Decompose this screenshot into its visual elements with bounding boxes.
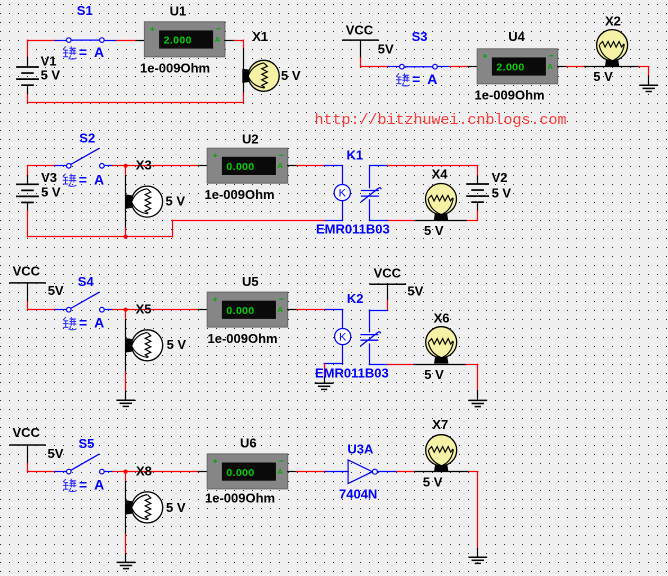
value label V3 5 V bbox=[41, 184, 61, 199]
label X7 bbox=[432, 417, 448, 432]
svg-text:K: K bbox=[339, 188, 347, 200]
value label U6 1e-009Ohm bbox=[205, 490, 275, 505]
wire U2 right pin bbox=[288, 165, 297, 167]
wire V3+ vertical bbox=[27, 166, 29, 176]
svg-text:EMR011B03: EMR011B03 bbox=[315, 366, 389, 381]
value label X1 5 V bbox=[281, 68, 301, 83]
svg-text:A: A bbox=[548, 62, 554, 71]
wire X3 top pin red bbox=[125, 166, 127, 176]
label S4 bbox=[78, 274, 95, 289]
ground K2 coil bbox=[315, 383, 334, 389]
wire contact bottom blue bbox=[370, 220, 388, 222]
wire X6 pins bbox=[414, 364, 466, 366]
wire X7 gnd stub bbox=[477, 549, 479, 558]
wire V2 bottom stub bbox=[477, 202, 479, 211]
label U2 bbox=[242, 132, 259, 147]
wire U4 right pin bbox=[558, 66, 567, 68]
wire X6 gnd drop bbox=[477, 364, 479, 390]
wire K2 coil top stub bbox=[342, 310, 344, 329]
wire VCC to contact bbox=[369, 310, 387, 312]
svg-text:U4: U4 bbox=[508, 29, 525, 44]
ground row1 bbox=[639, 85, 658, 91]
wire U2 left pin bbox=[198, 165, 207, 167]
svg-text:= A: = A bbox=[79, 44, 106, 60]
wire VCC stem row3 bbox=[27, 283, 29, 302]
svg-text:X4: X4 bbox=[432, 167, 449, 182]
wire U5 to K2 bbox=[297, 309, 326, 311]
key label 键 = A bbox=[63, 174, 77, 187]
label K1 bbox=[347, 148, 364, 163]
wire X8 gnd stub bbox=[125, 554, 127, 562]
wire K2 coil bottom corner bbox=[324, 363, 343, 365]
label X8 bbox=[136, 464, 152, 479]
value label 7404N bbox=[339, 487, 377, 502]
wire U3A input bbox=[325, 471, 348, 473]
power VCC row4 label VCC bbox=[13, 425, 41, 440]
lamp X1 bbox=[242, 60, 279, 91]
wire junction to U2 bbox=[126, 165, 199, 167]
lamp X7 bbox=[426, 435, 457, 472]
svg-text:5 V: 5 V bbox=[281, 68, 301, 83]
label X4 bbox=[432, 167, 449, 182]
lamp X6 bbox=[426, 327, 457, 364]
wire X1 top pin bbox=[243, 49, 245, 70]
svg-text:0.000: 0.000 bbox=[226, 161, 254, 173]
power VCC row3 left bbox=[9, 282, 46, 284]
wire X1 to bottom corner bbox=[243, 93, 245, 102]
wire K2 coil gnd red bbox=[324, 364, 326, 378]
svg-text:5 V: 5 V bbox=[167, 337, 187, 352]
wire X2 pins bbox=[585, 66, 639, 68]
svg-text:0.000: 0.000 bbox=[226, 467, 254, 479]
svg-text:0.000: 0.000 bbox=[226, 305, 254, 317]
wire U1 right pin bbox=[225, 40, 234, 42]
wire K1 contact bottom stub bbox=[369, 200, 371, 220]
wire X8 pins bbox=[125, 482, 127, 535]
wire X5 top pin red bbox=[125, 310, 127, 320]
wire V1+ vertical bbox=[27, 40, 29, 57]
svg-text:1e-009Ohm: 1e-009Ohm bbox=[140, 60, 210, 75]
power VCC row3 right bbox=[369, 283, 406, 285]
wire S5 right stub bbox=[104, 471, 113, 473]
svg-text:1e-009Ohm: 1e-009Ohm bbox=[205, 490, 275, 505]
label X3 bbox=[136, 158, 152, 173]
label S2 bbox=[79, 131, 95, 146]
wire K2 coil bottom stub bbox=[342, 345, 344, 364]
wire U3A output bbox=[377, 471, 396, 473]
power VCC row1 value 5V bbox=[378, 41, 394, 56]
wire X8 top pin red bbox=[125, 472, 127, 482]
power VCC row4 value 5V bbox=[48, 446, 64, 461]
wire X1 top corner bbox=[243, 40, 245, 49]
svg-text:X6: X6 bbox=[434, 311, 450, 326]
key label 键 = A bbox=[63, 479, 77, 492]
wire U2 to K1 bbox=[297, 165, 325, 167]
svg-text:V1: V1 bbox=[41, 53, 57, 68]
wire VCC stem red bbox=[360, 58, 362, 67]
svg-text:= A: = A bbox=[79, 315, 106, 331]
wire X1 bottom pin bbox=[243, 82, 245, 94]
value label U5 1e-009Ohm bbox=[208, 331, 278, 346]
wire V1 top stub bbox=[27, 57, 29, 67]
value label U1 1e-009Ohm bbox=[140, 60, 210, 75]
power VCC row1 bbox=[342, 39, 379, 41]
wire K2 contact top stub bbox=[369, 310, 371, 332]
value label U2 1e-009Ohm bbox=[205, 187, 275, 202]
svg-text:X3: X3 bbox=[136, 158, 152, 173]
wire contact to V2 top bbox=[388, 165, 478, 167]
wire K2 coil gnd stub bbox=[324, 378, 326, 383]
label S5 bbox=[79, 436, 95, 451]
switch S2 bbox=[67, 148, 105, 168]
wire K2 contact bottom stub bbox=[369, 344, 371, 364]
wire X7 to gnd corner bbox=[469, 471, 478, 473]
svg-text:X5: X5 bbox=[136, 302, 152, 317]
svg-text:U2: U2 bbox=[242, 132, 259, 147]
svg-text:5V: 5V bbox=[48, 283, 64, 298]
label V3 bbox=[41, 170, 57, 185]
label X5 bbox=[136, 302, 152, 317]
value label X6 5 V bbox=[424, 367, 444, 382]
switch S5 bbox=[67, 454, 105, 474]
ammeter U6 bbox=[207, 454, 288, 489]
svg-text:1e-009Ohm: 1e-009Ohm bbox=[208, 331, 278, 346]
watermark url text bbox=[315, 112, 567, 129]
label X1 bbox=[252, 29, 268, 44]
switch S3 bbox=[400, 64, 438, 69]
power VCC row3 left label VCC bbox=[13, 263, 41, 278]
wire K1 coil top corner bbox=[324, 165, 342, 167]
svg-text:V2: V2 bbox=[492, 170, 508, 185]
svg-text:VCC: VCC bbox=[346, 23, 374, 38]
battery V3 bbox=[16, 184, 39, 202]
wire VCC stem red row4 bbox=[27, 464, 29, 472]
svg-text:5 V: 5 V bbox=[41, 68, 61, 83]
wire bottom return to V3 bbox=[28, 236, 173, 238]
wire bottom return to V1 bbox=[28, 102, 244, 104]
wire S2 to junction bbox=[113, 165, 126, 167]
wire S2 left stub bbox=[55, 165, 66, 167]
svg-text:A: A bbox=[278, 467, 284, 476]
value label X8 5 V bbox=[166, 500, 186, 515]
wire V2 top corner bbox=[477, 166, 479, 176]
switch S4 bbox=[67, 292, 105, 312]
power VCC row3 right label VCC bbox=[374, 266, 402, 281]
wire X3 bottom red bbox=[125, 228, 127, 237]
wire S3 right stub bbox=[437, 66, 450, 68]
svg-text:U1: U1 bbox=[170, 4, 187, 19]
value label X5 5 V bbox=[167, 337, 187, 352]
wire ground drop red bbox=[648, 67, 650, 76]
label U6 bbox=[240, 435, 257, 450]
svg-text:V3: V3 bbox=[41, 170, 57, 185]
svg-text:K1: K1 bbox=[347, 148, 364, 163]
ground X7 bbox=[468, 557, 487, 563]
value label V1 5 V bbox=[41, 68, 61, 83]
wire U1 to X1 bbox=[234, 40, 243, 42]
relay coil K2 bbox=[335, 329, 351, 345]
svg-text:1e-009Ohm: 1e-009Ohm bbox=[475, 88, 545, 103]
wire S3 left stub bbox=[388, 66, 400, 68]
relay contact K1 bbox=[361, 188, 381, 202]
svg-text:2.000: 2.000 bbox=[164, 35, 192, 47]
wire K1 coil top stub bbox=[342, 166, 344, 185]
wire contact bottom blue row3 bbox=[369, 364, 387, 366]
wire K1 coil bottom stub bbox=[342, 201, 344, 221]
svg-text:VCC: VCC bbox=[13, 263, 41, 278]
wire X8 bottom red bbox=[125, 534, 127, 554]
label K2 bbox=[347, 291, 364, 306]
wire junction to U5 bbox=[126, 309, 199, 311]
svg-text:5V: 5V bbox=[407, 284, 423, 299]
value label X7 5 V bbox=[423, 475, 443, 490]
svg-text:5 V: 5 V bbox=[166, 500, 186, 515]
switch S1 bbox=[67, 38, 105, 43]
wire S3 to U4 bbox=[450, 66, 468, 68]
label EMR011B03 bbox=[316, 222, 390, 237]
ammeter U2 bbox=[207, 148, 288, 183]
svg-text:A: A bbox=[215, 35, 221, 44]
wire V3+ to S2 bbox=[28, 165, 56, 167]
battery V1 bbox=[16, 67, 39, 85]
wire S1 to U1 bbox=[117, 40, 136, 42]
wire S4 right stub bbox=[104, 309, 113, 311]
ammeter U5 bbox=[207, 292, 288, 327]
wire VCC stem red row3 bbox=[27, 302, 29, 310]
relay coil K1 bbox=[334, 185, 350, 201]
label S1 bbox=[77, 3, 93, 18]
svg-text:X7: X7 bbox=[432, 417, 448, 432]
wire V3 bottom stub bbox=[27, 202, 29, 211]
wire ground stub bbox=[648, 76, 650, 85]
svg-text:= A: = A bbox=[412, 71, 439, 87]
wire U5 left pin bbox=[198, 309, 207, 311]
label V2 bbox=[492, 170, 508, 185]
wire V1+ to S1 (top left corner) bbox=[28, 40, 56, 42]
label EMR011B03 row3 bbox=[315, 366, 389, 381]
power VCC row4 bbox=[9, 444, 46, 446]
svg-text:K2: K2 bbox=[347, 291, 364, 306]
wire V1- vertical bbox=[27, 94, 29, 103]
ground X5 bbox=[116, 400, 135, 406]
svg-text:X8: X8 bbox=[136, 464, 152, 479]
wire contact top blue bbox=[370, 165, 388, 167]
value label U4 1e-009Ohm bbox=[475, 88, 545, 103]
wire V2 to X4 bbox=[466, 220, 478, 222]
wire U5 right pin bbox=[288, 309, 297, 311]
wire X7 gnd drop bbox=[477, 472, 479, 549]
ammeter U4 bbox=[477, 49, 558, 84]
junction node X3 bottom bbox=[124, 235, 128, 239]
wire K1 coil bottom corner bbox=[324, 220, 342, 222]
value label V2 5 V bbox=[492, 185, 512, 200]
value label X2 5 V bbox=[593, 69, 613, 84]
wire X5 gnd stub bbox=[125, 391, 127, 400]
power VCC row3 right value 5V bbox=[407, 284, 423, 299]
wire VCC to S5 bbox=[28, 471, 56, 473]
wire VCC stem row4 bbox=[27, 445, 29, 464]
wire V3 top stub bbox=[27, 176, 29, 185]
wire V1 bottom stub bbox=[27, 85, 29, 93]
svg-text:S2: S2 bbox=[79, 131, 95, 146]
svg-text:U6: U6 bbox=[240, 435, 257, 450]
key label 键 = A bbox=[63, 317, 77, 330]
key label 键 = A bbox=[396, 73, 410, 86]
wire VCC stem red row3R bbox=[387, 300, 389, 310]
label U4 bbox=[508, 29, 525, 44]
wire U6 right pin bbox=[288, 471, 297, 473]
value label X3 5 V bbox=[166, 194, 186, 209]
svg-text:5 V: 5 V bbox=[166, 194, 186, 209]
wire K2 coil top corner bbox=[325, 309, 343, 311]
svg-text:A: A bbox=[278, 305, 284, 314]
wire U6 left pin bbox=[198, 471, 207, 473]
wire S1 right stub bbox=[104, 40, 116, 42]
ammeter U1 bbox=[144, 22, 225, 57]
wire U4 to X2 bbox=[567, 66, 585, 68]
label S3 bbox=[412, 29, 428, 44]
lamp X2 bbox=[597, 30, 628, 67]
svg-text:5 V: 5 V bbox=[424, 367, 444, 382]
wire U4 left pin bbox=[468, 66, 477, 68]
wire S2 right stub bbox=[104, 165, 113, 167]
svg-text:U5: U5 bbox=[242, 274, 259, 289]
inverter U3A bbox=[348, 460, 377, 484]
power VCC row1 label VCC bbox=[346, 23, 374, 38]
wire U3A to X7 bbox=[397, 471, 415, 473]
svg-text:U3A: U3A bbox=[347, 442, 374, 457]
svg-text:K: K bbox=[339, 332, 347, 344]
relay contact K2 bbox=[360, 332, 380, 346]
svg-text:VCC: VCC bbox=[13, 425, 41, 440]
lamp X3 bbox=[126, 186, 163, 217]
svg-text:VCC: VCC bbox=[374, 266, 402, 281]
junction node X5 top bbox=[124, 308, 128, 312]
wire V3- vertical bbox=[27, 211, 29, 237]
svg-text:S3: S3 bbox=[412, 29, 428, 44]
svg-text:5 V: 5 V bbox=[424, 223, 444, 238]
battery V2 bbox=[466, 184, 489, 202]
wire VCC to S4 bbox=[28, 309, 56, 311]
svg-text:5 V: 5 V bbox=[41, 184, 61, 199]
lamp X4 bbox=[426, 184, 457, 221]
svg-text:X1: X1 bbox=[252, 29, 268, 44]
ground X6 bbox=[468, 400, 487, 406]
ground X8 bbox=[117, 562, 136, 568]
svg-text:S5: S5 bbox=[79, 436, 95, 451]
wire U6 to U3A bbox=[297, 471, 326, 473]
svg-text:S4: S4 bbox=[78, 274, 95, 289]
wire X6 gnd stub bbox=[477, 391, 479, 401]
wire X4 to contact bbox=[388, 220, 415, 222]
key label 键 = A bbox=[63, 46, 77, 59]
wire X7 pins bbox=[415, 471, 469, 473]
wire V2 bottom corner bbox=[477, 211, 479, 220]
svg-text:http://bitzhuwei.cnblogs.com: http://bitzhuwei.cnblogs.com bbox=[315, 112, 567, 129]
junction node X3 top bbox=[124, 164, 128, 168]
label U5 bbox=[242, 274, 259, 289]
wire S1 left stub bbox=[55, 40, 66, 42]
wire return step down bbox=[172, 220, 174, 236]
wire U1 left pin bbox=[136, 40, 144, 42]
wire V2 top stub bbox=[477, 176, 479, 184]
wire X6 to gnd corner bbox=[466, 364, 478, 366]
junction node X8 top bbox=[124, 470, 128, 474]
wire K1 contact top stub bbox=[369, 166, 371, 188]
label X2 bbox=[605, 13, 621, 28]
wire VCC stem bbox=[360, 40, 362, 58]
wire junction to U6 bbox=[126, 471, 199, 473]
svg-text:1e-009Ohm: 1e-009Ohm bbox=[205, 187, 275, 202]
wire X5 pins bbox=[125, 320, 127, 373]
power VCC row3 left value 5V bbox=[48, 283, 64, 298]
wire S4 left stub bbox=[55, 309, 66, 311]
label V1 bbox=[41, 53, 57, 68]
label U3A bbox=[347, 442, 374, 457]
wire X5 bottom red bbox=[125, 372, 127, 391]
svg-text:2.000: 2.000 bbox=[496, 62, 524, 74]
svg-text:5V: 5V bbox=[378, 41, 394, 56]
svg-text:A: A bbox=[278, 161, 284, 170]
wire S5 to junction bbox=[113, 471, 126, 473]
label X6 bbox=[434, 311, 450, 326]
svg-text:X2: X2 bbox=[605, 13, 621, 28]
wire coil return bbox=[173, 220, 325, 222]
svg-text:= A: = A bbox=[79, 171, 106, 187]
wire S4 to junction bbox=[113, 309, 126, 311]
svg-text:7404N: 7404N bbox=[339, 487, 377, 502]
wire X2 to ground corner bbox=[639, 66, 649, 68]
lamp X8 bbox=[126, 492, 163, 523]
value label X4 5 V bbox=[424, 223, 444, 238]
wire VCC stem row3R bbox=[387, 284, 389, 300]
svg-text:S1: S1 bbox=[77, 3, 93, 18]
wire X3 pins bbox=[125, 176, 127, 228]
label U1 bbox=[170, 4, 187, 19]
svg-text:5 V: 5 V bbox=[492, 185, 512, 200]
svg-text:EMR011B03: EMR011B03 bbox=[316, 222, 390, 237]
wire X4 pins bbox=[414, 220, 466, 222]
svg-text:5V: 5V bbox=[48, 446, 64, 461]
svg-text:5 V: 5 V bbox=[423, 475, 443, 490]
lamp X5 bbox=[126, 330, 163, 361]
svg-text:= A: = A bbox=[79, 477, 106, 493]
wire VCC to S3 bbox=[361, 66, 389, 68]
wire S5 left stub bbox=[55, 471, 66, 473]
svg-text:5 V: 5 V bbox=[593, 69, 613, 84]
wire contact to X6 bbox=[388, 364, 414, 366]
